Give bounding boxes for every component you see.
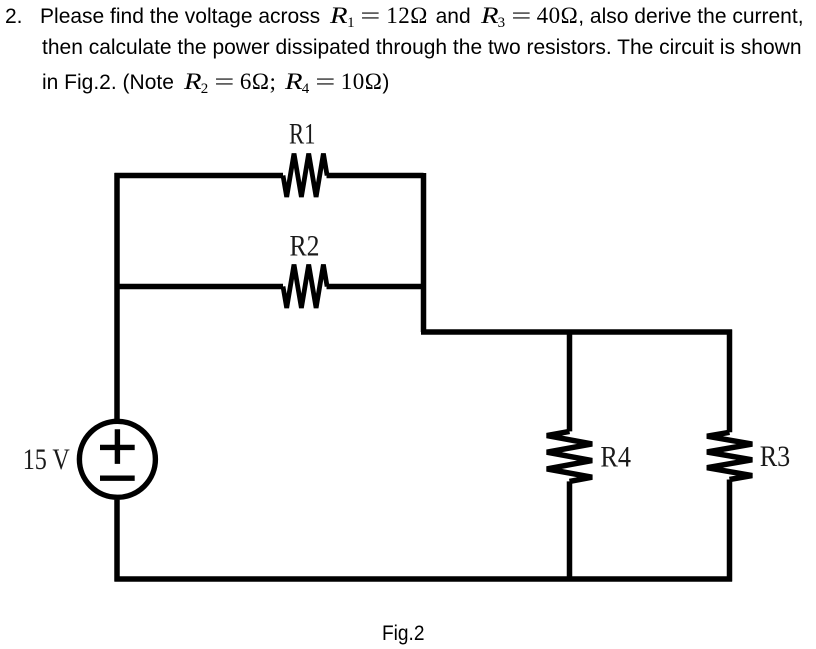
wire R3 branch lower <box>727 480 733 582</box>
wire top left-to-R1 <box>115 173 284 179</box>
problem statement line 1 <box>5 3 804 29</box>
svg-text:R3: R3 <box>760 440 791 473</box>
wire bottom <box>115 576 733 582</box>
wire R2 left segment <box>115 284 284 290</box>
problem statement line 2 <box>42 36 802 60</box>
resistor R1 <box>283 154 327 198</box>
svg-text:Fig.2: Fig.2 <box>382 621 425 645</box>
svg-text:15 V: 15 V <box>23 443 70 476</box>
wire R4 branch upper <box>567 330 573 432</box>
wire R2 right segment <box>327 284 424 290</box>
resistor R3 <box>707 432 752 479</box>
resistor R2 <box>283 265 327 309</box>
wire left vertical upper <box>114 173 120 419</box>
svg-text:R1: R1 <box>289 118 316 151</box>
svg-text:R2: R2 <box>290 230 320 263</box>
wire R4 branch lower <box>567 481 573 581</box>
wire R1-to-right-corner <box>327 173 424 179</box>
voltage source V1 circle <box>79 421 155 497</box>
wire R3 branch upper <box>727 330 733 433</box>
resistor R4 <box>547 431 592 481</box>
wire right vertical <box>421 173 427 332</box>
voltage source minus sign <box>100 476 135 481</box>
wire left vertical lower <box>114 500 120 582</box>
svg-text:R4: R4 <box>600 440 631 473</box>
wire middle horizontal <box>421 329 732 335</box>
voltage source plus sign <box>100 429 135 464</box>
problem statement line 3 <box>42 69 389 95</box>
